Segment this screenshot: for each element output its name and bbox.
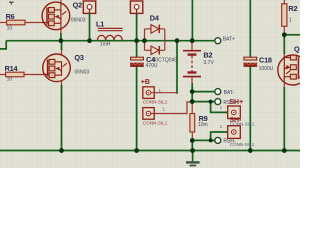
svg-text:R6: R6: [6, 12, 15, 21]
junction battery top on BAT+ bus: [190, 38, 195, 43]
svg-text:1000U: 1000U: [259, 66, 274, 72]
battery B2: [183, 51, 214, 77]
wire R2 top pin from edge: [283, 0, 285, 4]
wire node down to Q1 drain: [283, 35, 285, 54]
svg-text:BAT+: BAT+: [223, 37, 235, 43]
wire +B net vertical: [176, 41, 177, 93]
junction R2 bottom / Q1 drain node: [282, 32, 287, 37]
svg-text:10m: 10m: [198, 122, 208, 128]
diode D5: [145, 46, 165, 55]
svg-text:Q2: Q2: [73, 1, 82, 10]
svg-text:SH+: SH+: [229, 99, 243, 106]
junction C4 column on ground bus: [134, 148, 139, 153]
connector SH-: [220, 124, 255, 147]
junction C18 column on ground bus: [248, 148, 253, 153]
wire battery line to R9: [191, 104, 193, 114]
wire Q1 source to ground bus: [283, 87, 285, 151]
svg-text:L1: L1: [96, 19, 104, 28]
junction Q1 source on ground bus: [282, 148, 287, 153]
junction terminal T2 / C4 column on BAT+ bus: [134, 38, 139, 43]
wire RSH-: [192, 139, 214, 141]
junction SH- branch: [209, 138, 213, 142]
terminal RSH-: [215, 137, 221, 143]
wire battery top pin: [191, 41, 193, 50]
wire R14 left pin: [0, 74, 6, 76]
svg-text:B2: B2: [203, 51, 212, 60]
terminal post T1: [83, 1, 95, 13]
wire D4/D5 cathode link: [164, 29, 166, 50]
wire BAT-: [192, 91, 214, 93]
junction +B branch on BAT+ bus: [175, 38, 180, 43]
wire R9 bottom: [191, 132, 193, 140]
terminal RSH+: [215, 99, 221, 105]
svg-text:CONN-SIL1: CONN-SIL1: [143, 100, 168, 105]
svg-text:R2: R2: [288, 4, 297, 13]
capacitor C18: [244, 56, 274, 72]
connector J2: [143, 102, 191, 125]
svg-text:C18: C18: [259, 56, 272, 65]
wire C18 column from top edge: [249, 0, 251, 57]
junction ground stem on ground bus: [190, 148, 195, 153]
grid background: [0, 0, 300, 168]
resistor R2: [282, 4, 298, 27]
junction Q3 source on ground bus: [59, 148, 64, 153]
wire C18 to ground bus: [249, 67, 251, 151]
junction terminal T1 on BAT+ bus: [87, 38, 92, 43]
wire RSH+: [192, 101, 214, 103]
svg-text:470U: 470U: [146, 63, 158, 69]
wire node to right edge: [284, 34, 300, 36]
ground symbol: [186, 151, 200, 167]
junction D4/D5 anodes on BAT+ bus: [142, 38, 147, 43]
junction SH+ branch: [209, 100, 213, 104]
svg-text:+B: +B: [141, 79, 150, 86]
transistor Q3: [43, 49, 90, 86]
svg-text:10: 10: [7, 76, 13, 82]
svg-text:R14: R14: [5, 64, 19, 73]
wire Q2 source to bus: [60, 33, 62, 41]
svg-text:Q3: Q3: [74, 53, 83, 62]
wire D4/D5 anode link: [144, 29, 146, 50]
power flag top-left: [9, 2, 14, 5]
wire T2 down through bus to C4: [136, 13, 138, 57]
svg-text:40CTQ045: 40CTQ045: [153, 57, 178, 63]
wire battery bottom: [191, 77, 193, 83]
wire C4 to ground bus: [136, 67, 138, 151]
terminal BAT+: [215, 38, 221, 44]
diode D4: [145, 14, 165, 34]
svg-text:06N03: 06N03: [71, 18, 86, 24]
terminal post T2: [130, 1, 142, 13]
svg-text:1mH: 1mH: [100, 42, 111, 48]
wire BAT+ bus left jog: [0, 41, 6, 49]
svg-text:D4: D4: [150, 14, 160, 23]
wire Q3 drain to bus: [61, 41, 63, 50]
junction Q2 source / Q3 drain on BAT+ bus: [59, 38, 64, 43]
inductor L1: [96, 19, 123, 47]
wire R2 bottom to node: [283, 26, 285, 35]
wire R6 left pin: [0, 22, 7, 24]
svg-text:3.7V: 3.7V: [203, 60, 214, 66]
junction RSH+ / R9 top node: [190, 99, 195, 104]
wire Q3 source to ground bus: [61, 85, 63, 151]
resistor R9: [190, 114, 208, 132]
svg-text:10: 10: [7, 25, 13, 31]
svg-text:Q1: Q1: [294, 45, 300, 54]
svg-text:CONN-SIL1: CONN-SIL1: [143, 120, 168, 125]
resistor R6: [6, 12, 43, 31]
transistor Q2: [42, 0, 86, 35]
junction BAT- branch: [190, 89, 195, 94]
transistor Q1 (mirrored): [278, 45, 308, 88]
wire vertical into battery from top edge: [191, 0, 193, 41]
connector SH+: [220, 105, 255, 127]
svg-text:1: 1: [289, 18, 292, 24]
terminal BAT-: [215, 89, 221, 95]
junction R9 bottom / RSH- node: [190, 138, 195, 143]
wire bottom ground bus: [0, 150, 300, 152]
capacitor C4: [131, 55, 158, 69]
svg-text:BAT-: BAT-: [224, 90, 235, 96]
svg-text:SH-: SH-: [229, 117, 242, 124]
wire T1 to bus: [89, 13, 91, 40]
wire SH- link: [211, 132, 228, 140]
resistor R14: [5, 64, 44, 82]
svg-text:06N03: 06N03: [74, 70, 89, 76]
wire BAT+ top bus: [6, 40, 214, 42]
connector J1 (+B): [143, 87, 177, 105]
wire SH+ link: [211, 102, 228, 113]
